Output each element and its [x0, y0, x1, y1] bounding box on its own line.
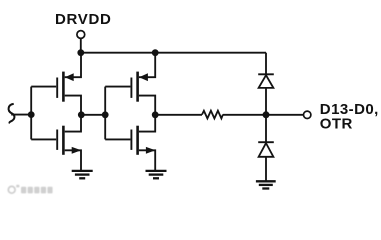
arrow M3 source (points left)	[139, 73, 148, 81]
wire M3 gate lead	[105, 86, 130, 88]
junction inverter2 input	[102, 111, 109, 118]
wire M4 source	[139, 150, 155, 170]
wire M1 source from rail	[65, 53, 81, 77]
svg-text:OTR: OTR	[320, 116, 353, 133]
wire DRVDD rail	[81, 52, 266, 54]
wire inverter1 out to inverter2 in	[81, 114, 105, 116]
transistor M4 NMOS channel bar	[136, 126, 139, 155]
wire M1 drain	[65, 96, 81, 115]
wire M2 drain	[65, 115, 81, 132]
junction inverter2 output	[152, 111, 159, 118]
transistor M1 PMOS gate bar	[56, 78, 58, 98]
diode D2 cathode bar	[258, 141, 274, 143]
transistor M1 PMOS channel bar	[62, 72, 65, 102]
wire inverter2 out to resistor	[155, 114, 202, 116]
arrow M4 source (points right)	[146, 147, 156, 154]
ground GND3	[256, 181, 276, 188]
wire rail corner down to D1	[265, 53, 267, 75]
junction rail-M3	[152, 49, 159, 56]
wire M4 gate lead	[105, 138, 130, 140]
resistor R1	[202, 111, 223, 119]
wire D2 anode to ground	[265, 157, 267, 181]
junction rail-M1	[77, 49, 84, 56]
wire M3 drain	[139, 96, 155, 115]
wire M3 source from rail	[139, 53, 155, 77]
arrow M1 source (points left)	[65, 73, 74, 81]
transistor M3 PMOS channel bar	[136, 72, 139, 102]
wire M4 drain	[139, 115, 155, 132]
node input break squiggle	[9, 104, 15, 123]
transistor M2 NMOS channel bar	[62, 126, 65, 155]
diode D1 cathode bar	[258, 73, 274, 75]
wire M1 gate lead	[31, 86, 56, 88]
transistor M4 NMOS gate bar	[130, 130, 132, 150]
transistor M2 NMOS gate bar	[56, 130, 58, 150]
wire diode branch upper	[265, 88, 267, 142]
wire M2 gate lead	[31, 138, 56, 140]
svg-text:DRVDD: DRVDD	[55, 11, 112, 28]
diode D2	[259, 143, 274, 157]
transistor M3 PMOS gate bar	[130, 78, 132, 98]
wire inverter1 gate riser	[30, 87, 32, 140]
junction inverter1 output	[78, 111, 85, 118]
junction input node	[28, 111, 35, 118]
diode D1	[259, 75, 274, 88]
wire M2 source	[65, 150, 81, 170]
terminal output	[304, 111, 311, 118]
wire inverter2 gate riser	[104, 87, 106, 140]
wire input lead	[11, 114, 31, 116]
junction output node	[263, 111, 270, 118]
arrow M2 source (points right)	[72, 147, 82, 154]
wire resistor to output terminal	[223, 114, 304, 116]
wire DRVDD terminal stem	[80, 39, 82, 53]
terminal DRVDD	[77, 31, 85, 39]
ground GND2	[146, 171, 167, 178]
ground GND1	[72, 171, 93, 178]
